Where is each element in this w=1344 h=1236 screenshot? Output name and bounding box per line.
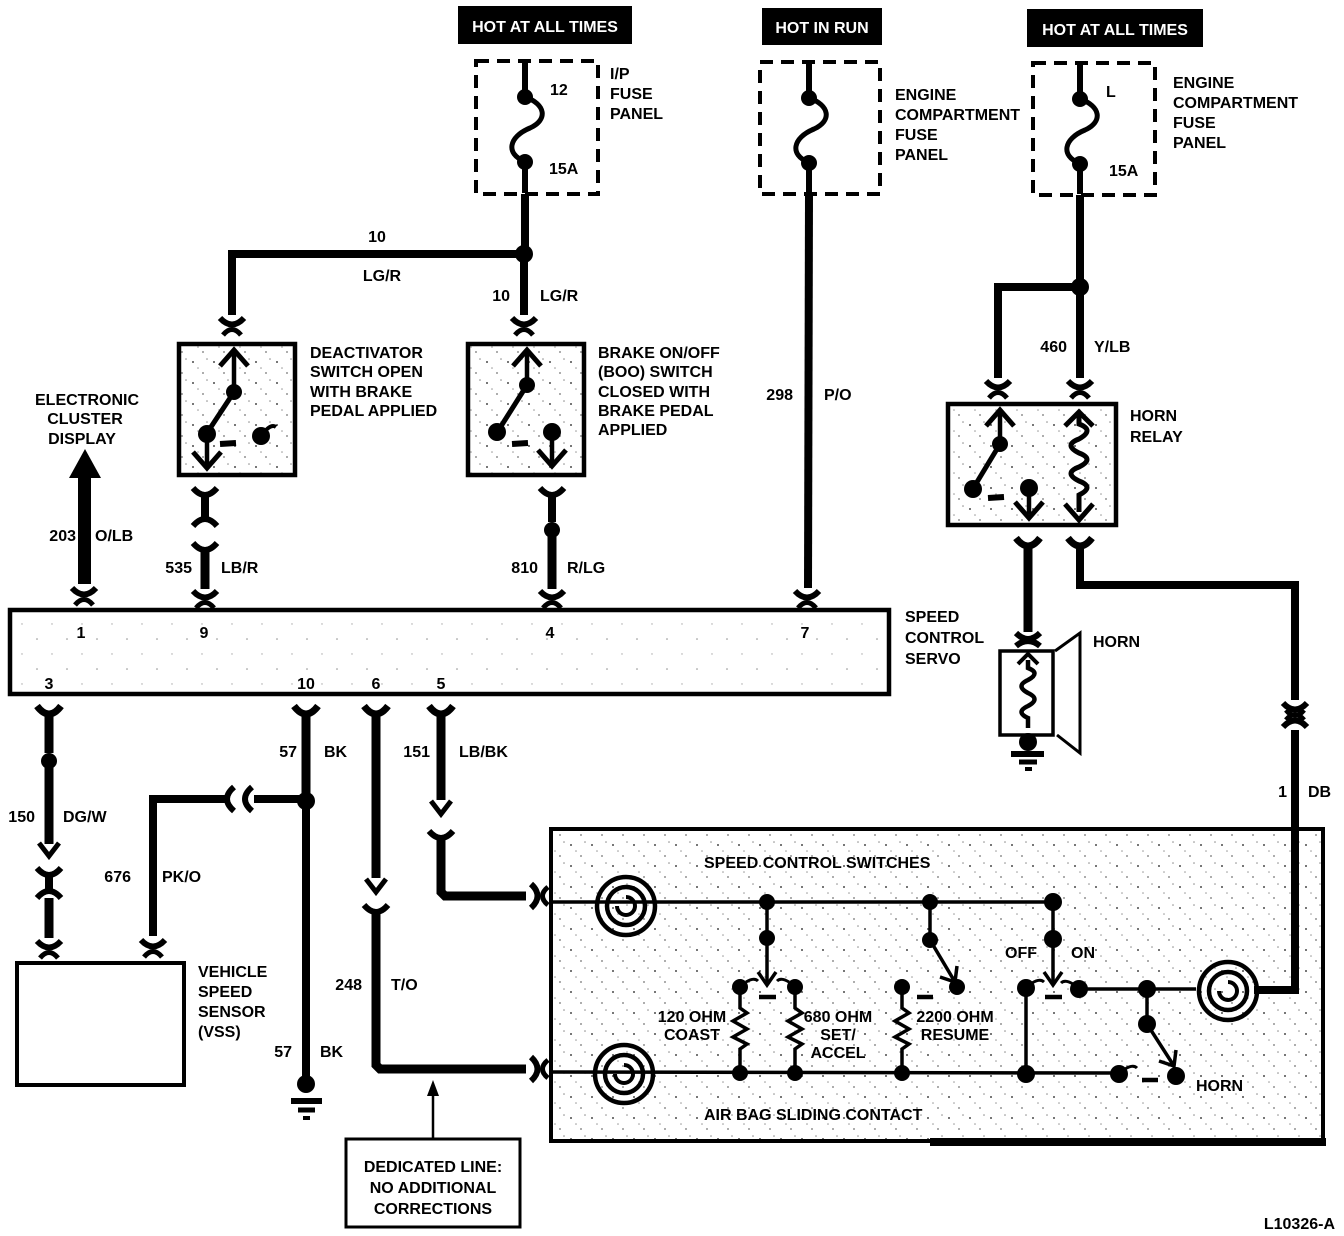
coast switch bbox=[758, 894, 776, 997]
fuse L 15A symbol bbox=[1067, 65, 1097, 194]
pin 6 connector and wire 248 T/O bbox=[364, 706, 388, 714]
svg-text:6: 6 bbox=[372, 676, 381, 693]
svg-text:L10326-A: L10326-A bbox=[1264, 1216, 1336, 1233]
svg-text:PANEL: PANEL bbox=[1173, 135, 1226, 152]
label DEACTIVATOR SWITCH OPEN WITH BRAKE PEDAL APPLIED bbox=[310, 345, 437, 420]
svg-text:BK: BK bbox=[324, 744, 348, 761]
pin 10 connector and wire 57 BK bbox=[294, 706, 318, 714]
svg-text:R/LG: R/LG bbox=[567, 560, 605, 577]
speed control servo box bbox=[10, 610, 889, 694]
svg-text:ACCEL: ACCEL bbox=[810, 1045, 865, 1062]
label I/P FUSE PANEL bbox=[610, 66, 663, 123]
svg-text:AIR BAG SLIDING CONTACT: AIR BAG SLIDING CONTACT bbox=[704, 1107, 923, 1124]
svg-text:15A: 15A bbox=[549, 161, 579, 178]
svg-text:HORN: HORN bbox=[1093, 634, 1140, 651]
svg-text:O/LB: O/LB bbox=[95, 528, 133, 545]
inline connector below deactivator bbox=[193, 488, 217, 495]
svg-text:HORN: HORN bbox=[1196, 1078, 1243, 1095]
fuse 12 15A symbol bbox=[512, 63, 542, 193]
wire from relay to horn bbox=[1024, 546, 1033, 632]
svg-text:120 OHM: 120 OHM bbox=[658, 1009, 726, 1026]
svg-text:676: 676 bbox=[104, 869, 131, 886]
sliding contact spiral (right) bbox=[1199, 962, 1257, 1020]
thin arrow from callout to wire 248 bbox=[432, 1092, 435, 1139]
svg-text:LG/R: LG/R bbox=[363, 268, 402, 285]
svg-text:DG/W: DG/W bbox=[63, 809, 107, 826]
svg-text:Y/LB: Y/LB bbox=[1094, 339, 1130, 356]
horn speaker symbol bbox=[1000, 633, 1080, 753]
on/off switch bbox=[1044, 893, 1062, 997]
wire branch left to horn relay bbox=[998, 287, 1080, 378]
I/P fuse panel box (dashed) bbox=[476, 61, 598, 194]
svg-text:SERVO: SERVO bbox=[905, 651, 961, 668]
node junction at 10 LG/R split bbox=[515, 245, 533, 263]
sliding contact spiral (bottom left) bbox=[595, 1045, 653, 1103]
wire from spiral to 1 DB entry bbox=[1254, 827, 1295, 990]
resume switch bbox=[917, 894, 965, 997]
power label HOT IN RUN bbox=[762, 8, 882, 45]
svg-text:NO ADDITIONAL: NO ADDITIONAL bbox=[370, 1180, 497, 1197]
svg-text:10: 10 bbox=[492, 288, 510, 305]
svg-text:HOT IN RUN: HOT IN RUN bbox=[775, 20, 868, 37]
wire from right fuse down to junction bbox=[1076, 195, 1084, 283]
pin 5 connector and wire 151 LB/BK bbox=[429, 706, 453, 714]
label VEHICLE SPEED SENSOR (VSS) bbox=[198, 964, 268, 1041]
wire 535 LB/R bbox=[193, 543, 217, 550]
svg-text:PK/O: PK/O bbox=[162, 869, 201, 886]
wire drop to deactivator switch bbox=[228, 250, 236, 315]
connector and wire 810 R/LG below BOO bbox=[540, 488, 564, 495]
pin 3 connector and wire 150 DG/W bbox=[37, 706, 61, 714]
BOO switch box bbox=[468, 344, 584, 475]
label SPEED CONTROL SERVO bbox=[905, 609, 984, 668]
fuse symbol (middle) bbox=[796, 64, 826, 193]
label BRAKE ON/OFF (BOO) SWITCH CLOSED WITH BRAKE PEDAL APPLIED bbox=[598, 345, 720, 439]
horn relay coil bbox=[1065, 412, 1093, 520]
svg-text:2200 OHM: 2200 OHM bbox=[916, 1009, 993, 1026]
svg-text:L: L bbox=[1106, 84, 1116, 101]
engine compartment fuse panel box (dashed, middle) bbox=[760, 62, 880, 194]
svg-text:ELECTRONIC: ELECTRONIC bbox=[35, 392, 139, 409]
svg-text:OFF: OFF bbox=[1005, 945, 1037, 962]
label DEDICATED LINE: NO ADDITIONAL CORRECTIONS bbox=[364, 1159, 502, 1218]
svg-text:VEHICLE: VEHICLE bbox=[198, 964, 268, 981]
svg-text:12: 12 bbox=[550, 82, 568, 99]
power label HOT AT ALL TIMES (left) bbox=[458, 6, 632, 44]
top bus wire bbox=[553, 900, 1053, 904]
set/accel contact and resistor 680 ohm bbox=[777, 979, 803, 1081]
label 680 OHM SET/ACCEL bbox=[804, 1009, 872, 1062]
label ENGINE COMPARTMENT FUSE PANEL (right) bbox=[1173, 75, 1298, 152]
wire 57 BK to ground bbox=[302, 801, 310, 1078]
coast contact and resistor 120 ohm bbox=[732, 979, 758, 1081]
svg-text:1: 1 bbox=[1278, 784, 1287, 801]
svg-text:APPLIED: APPLIED bbox=[598, 422, 667, 439]
svg-text:FUSE: FUSE bbox=[610, 86, 653, 103]
svg-text:DEDICATED LINE:: DEDICATED LINE: bbox=[364, 1159, 502, 1176]
svg-text:(VSS): (VSS) bbox=[198, 1024, 241, 1041]
svg-text:T/O: T/O bbox=[391, 977, 418, 994]
svg-text:PANEL: PANEL bbox=[610, 106, 663, 123]
svg-text:LG/R: LG/R bbox=[540, 288, 579, 305]
label HORN RELAY bbox=[1130, 408, 1183, 446]
svg-text:460: 460 bbox=[1040, 339, 1067, 356]
label 2200 OHM RESUME bbox=[916, 1009, 993, 1044]
svg-text:ENGINE: ENGINE bbox=[1173, 75, 1235, 92]
bottom bus wire bbox=[553, 1072, 1119, 1073]
svg-text:3: 3 bbox=[45, 676, 54, 693]
svg-text:203: 203 bbox=[49, 528, 76, 545]
svg-text:ENGINE: ENGINE bbox=[895, 87, 957, 104]
svg-text:15A: 15A bbox=[1109, 163, 1139, 180]
resume contact and resistor 2200 ohm bbox=[894, 979, 910, 1081]
svg-text:DISPLAY: DISPLAY bbox=[48, 431, 116, 448]
wire 298 P/O from middle fuse to pin 7 bbox=[808, 194, 809, 588]
speed control switches box bbox=[551, 829, 1323, 1141]
svg-text:SET/: SET/ bbox=[820, 1027, 856, 1044]
svg-text:4: 4 bbox=[546, 625, 555, 642]
connector below relay left pin bbox=[1016, 538, 1040, 546]
on contact wire to horn spiral bbox=[1061, 980, 1196, 998]
svg-text:BK: BK bbox=[320, 1044, 344, 1061]
ground symbol (57 BK) bbox=[291, 1075, 322, 1118]
svg-text:150: 150 bbox=[8, 809, 35, 826]
svg-text:SPEED: SPEED bbox=[905, 609, 959, 626]
svg-text:COMPARTMENT: COMPARTMENT bbox=[1173, 95, 1298, 112]
svg-text:151: 151 bbox=[403, 744, 430, 761]
svg-text:SENSOR: SENSOR bbox=[198, 1004, 266, 1021]
svg-text:HOT AT ALL TIMES: HOT AT ALL TIMES bbox=[1042, 22, 1188, 39]
svg-text:FUSE: FUSE bbox=[895, 127, 938, 144]
svg-text:DEACTIVATOR: DEACTIVATOR bbox=[310, 345, 423, 362]
node junction 460 Y/LB split bbox=[1071, 278, 1089, 296]
svg-text:I/P: I/P bbox=[610, 66, 630, 83]
svg-text:CONTROL: CONTROL bbox=[905, 630, 984, 647]
node junction 57 BK / 676 PK/O bbox=[297, 792, 315, 810]
svg-text:248: 248 bbox=[335, 977, 362, 994]
svg-text:10: 10 bbox=[297, 676, 315, 693]
svg-text:HORN: HORN bbox=[1130, 408, 1177, 425]
svg-text:10: 10 bbox=[368, 229, 386, 246]
svg-text:(BOO) SWITCH: (BOO) SWITCH bbox=[598, 364, 713, 381]
svg-text:SWITCH OPEN: SWITCH OPEN bbox=[310, 364, 423, 381]
horn switch bbox=[1110, 989, 1185, 1085]
dedicated line callout box bbox=[346, 1139, 520, 1227]
svg-text:7: 7 bbox=[801, 625, 810, 642]
svg-text:PANEL: PANEL bbox=[895, 147, 948, 164]
svg-text:1: 1 bbox=[77, 625, 86, 642]
connector below relay right pin bbox=[1068, 538, 1092, 546]
svg-text:WITH BRAKE: WITH BRAKE bbox=[310, 384, 413, 401]
svg-text:9: 9 bbox=[200, 625, 209, 642]
vehicle speed sensor box bbox=[17, 963, 184, 1085]
svg-text:57: 57 bbox=[274, 1044, 292, 1061]
svg-text:5: 5 bbox=[437, 676, 446, 693]
arrow to electronic cluster display bbox=[69, 449, 101, 584]
svg-text:RELAY: RELAY bbox=[1130, 429, 1183, 446]
svg-text:57: 57 bbox=[279, 744, 297, 761]
wire 676 PK/O branch bbox=[254, 795, 306, 803]
svg-text:CLUSTER: CLUSTER bbox=[47, 411, 123, 428]
horn relay box bbox=[948, 404, 1116, 525]
svg-text:FUSE: FUSE bbox=[1173, 115, 1216, 132]
wire 1 DB from relay to speed control switches bbox=[1080, 546, 1295, 700]
label ENGINE COMPARTMENT FUSE PANEL (middle) bbox=[895, 87, 1020, 164]
label 120 OHM COAST bbox=[658, 1009, 726, 1044]
svg-text:CLOSED WITH: CLOSED WITH bbox=[598, 384, 710, 401]
svg-text:298: 298 bbox=[766, 387, 793, 404]
svg-text:P/O: P/O bbox=[824, 387, 852, 404]
svg-text:CORRECTIONS: CORRECTIONS bbox=[374, 1201, 493, 1218]
ground below horn bbox=[1011, 733, 1044, 769]
svg-text:DB: DB bbox=[1308, 784, 1331, 801]
label ELECTRONIC CLUSTER DISPLAY bbox=[35, 392, 139, 448]
svg-text:COMPARTMENT: COMPARTMENT bbox=[895, 107, 1020, 124]
svg-text:COAST: COAST bbox=[664, 1027, 720, 1044]
svg-text:810: 810 bbox=[511, 560, 538, 577]
node junction horn switch bbox=[1138, 980, 1156, 998]
deactivator switch box bbox=[179, 344, 295, 475]
power label HOT AT ALL TIMES (right) bbox=[1027, 9, 1203, 47]
BOO switch contacts bbox=[488, 350, 566, 466]
svg-text:535: 535 bbox=[165, 560, 192, 577]
horn relay switch contacts bbox=[964, 410, 1043, 518]
svg-text:BRAKE ON/OFF: BRAKE ON/OFF bbox=[598, 345, 720, 362]
thick bottom-right box edge bbox=[930, 1138, 1326, 1146]
engine compartment fuse panel box (dashed, right) bbox=[1033, 63, 1155, 195]
wire 10 LG/R horizontal branch bbox=[232, 250, 524, 258]
svg-text:BRAKE PEDAL: BRAKE PEDAL bbox=[598, 403, 714, 420]
svg-text:RESUME: RESUME bbox=[921, 1027, 990, 1044]
off contact wire to bottom bus bbox=[1017, 979, 1044, 1083]
svg-text:SPEED: SPEED bbox=[198, 984, 252, 1001]
svg-text:HOT AT ALL TIMES: HOT AT ALL TIMES bbox=[472, 19, 618, 36]
svg-text:LB/R: LB/R bbox=[221, 560, 259, 577]
svg-text:ON: ON bbox=[1071, 945, 1095, 962]
svg-text:PEDAL APPLIED: PEDAL APPLIED bbox=[310, 403, 437, 420]
svg-text:SPEED CONTROL SWITCHES: SPEED CONTROL SWITCHES bbox=[704, 855, 931, 872]
deactivator switch contacts bbox=[193, 350, 276, 468]
svg-text:680 OHM: 680 OHM bbox=[804, 1009, 872, 1026]
wire 10 LG/R drop to BOO switch bbox=[520, 254, 528, 315]
wire from I/P fuse down to junction bbox=[521, 194, 529, 250]
wire 460 Y/LB down to horn relay bbox=[1076, 287, 1084, 378]
svg-text:LB/BK: LB/BK bbox=[459, 744, 508, 761]
sliding contact spiral (top left) bbox=[597, 877, 655, 935]
